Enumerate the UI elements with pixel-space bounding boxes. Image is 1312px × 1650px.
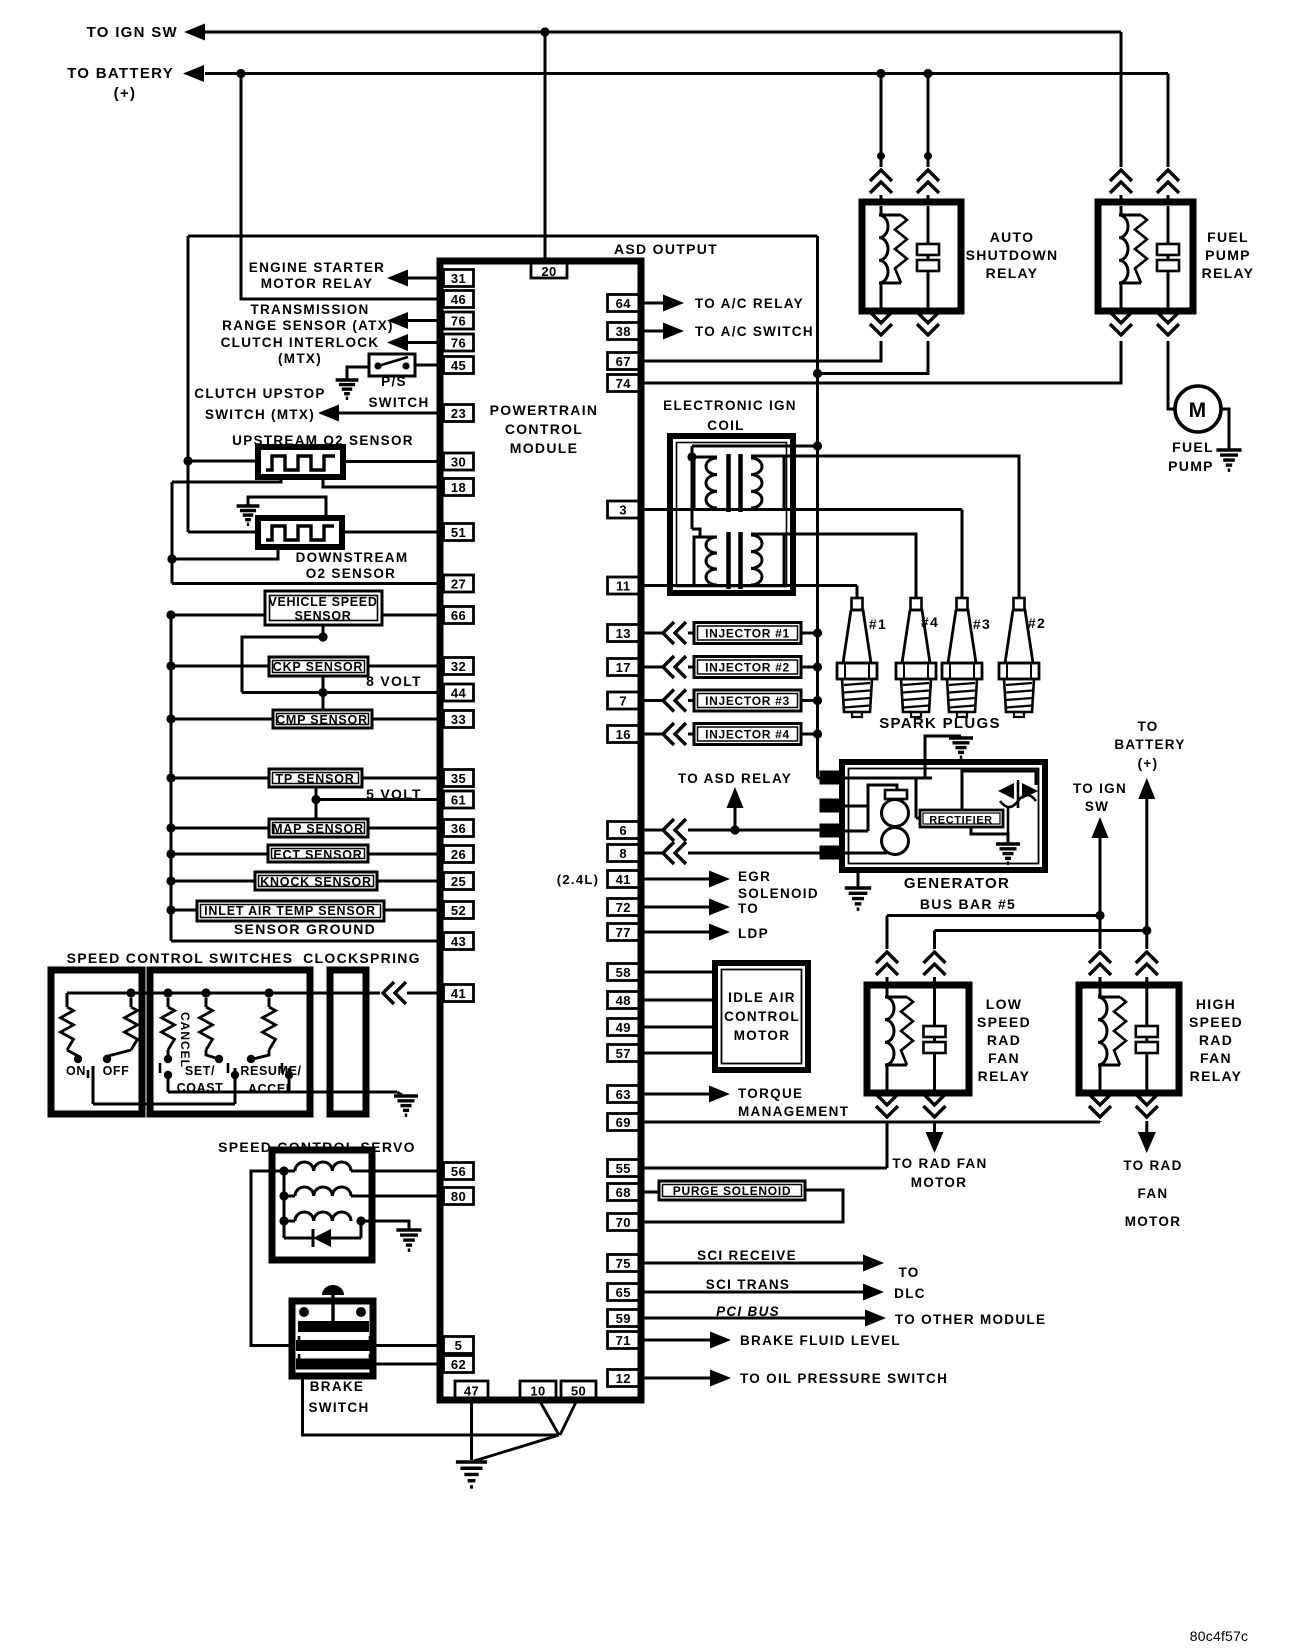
wire: pin 55 line — [644, 1167, 887, 1170]
pin 50 box at PCM bottom — [561, 1381, 596, 1398]
svg-text:13: 13 — [616, 626, 631, 641]
node: junction sensor ground rail / CKP — [166, 661, 175, 670]
wire: upstream O2 sensor to pin 30 — [343, 460, 441, 463]
wire: fuel pump relay coil feed from IGN line — [1120, 32, 1123, 167]
pin 43 (left column, y=941) — [444, 933, 474, 950]
svg-text:(+): (+) — [114, 85, 137, 102]
wire: injector #2 to ASD bus rail — [801, 666, 818, 669]
wire: spark plug 1 drop — [856, 586, 859, 599]
pin 17 (right column, y=667) — [608, 659, 640, 676]
ground: generator case — [845, 886, 871, 889]
svg-text:BUS BAR #5: BUS BAR #5 — [920, 896, 1016, 912]
svg-text:8: 8 — [619, 846, 627, 861]
wire: generator tab4 internal — [842, 852, 887, 855]
pin 65 (right column, y=1292) — [608, 1284, 640, 1301]
svg-text:80: 80 — [451, 1189, 466, 1204]
wire: TP 5-volt drop — [315, 787, 318, 800]
pin 10 box at PCM bottom — [520, 1381, 556, 1398]
svg-text:36: 36 — [451, 821, 466, 836]
svg-text:77: 77 — [616, 925, 631, 940]
svg-text:VEHICLE SPEED: VEHICLE SPEED — [268, 595, 377, 609]
wire: pin 61 5-volt line — [316, 798, 441, 801]
wire: pin 47 to ground — [470, 1398, 473, 1460]
motor M1 fuel pump — [1175, 386, 1221, 432]
wire: brake switch to pin 62 — [373, 1363, 441, 1366]
module U1 POWERTRAIN CONTROL MODULE box — [440, 261, 641, 1400]
wire: injector #4 to ASD bus rail — [801, 733, 818, 736]
svg-text:27: 27 — [451, 577, 466, 592]
svg-text:SPARK PLUGS: SPARK PLUGS — [879, 715, 1001, 732]
connector chevrons below fuel pump relay contact — [1157, 312, 1179, 323]
connector chevrons below fuel pump relay coil — [1110, 312, 1132, 323]
pin 23 (left column, y=413) — [444, 405, 474, 422]
node: junction sensor ground rail / inlet air temp — [166, 905, 175, 914]
wire: servo bottom loop — [284, 1237, 313, 1240]
pin 64 (right column, y=303) — [608, 295, 640, 312]
wire: inlet air temp sensor to pin 52 — [384, 909, 441, 912]
relay K1 coil winding — [879, 215, 888, 283]
pin 62 (left column, y=1364) — [444, 1356, 474, 1373]
svg-text:PUMP: PUMP — [1205, 247, 1251, 263]
svg-text:RAD: RAD — [1199, 1032, 1233, 1048]
wire: injector #3 to ASD bus rail — [801, 699, 818, 702]
wire: pin 49 to IAC — [644, 1026, 715, 1029]
svg-text:41: 41 — [616, 872, 631, 887]
wire: pin 57 to IAC — [644, 1052, 715, 1055]
pin 25 (left column, y=881) — [444, 873, 474, 890]
node: junction feed rail / SET — [201, 988, 210, 997]
svg-text:DLC: DLC — [894, 1286, 926, 1301]
wire: downstream O2 sensor to pin 51 — [342, 531, 441, 534]
spark plug #1 — [852, 598, 863, 610]
pin 68 (right column, y=1192) — [608, 1184, 640, 1201]
node: junction on O2 return rail — [167, 554, 176, 563]
svg-text:POWERTRAIN: POWERTRAIN — [490, 402, 599, 418]
svg-text:HIGH: HIGH — [1196, 996, 1236, 1012]
pin 44 (left column, y=692.5) — [444, 684, 474, 701]
svg-text:MOTOR: MOTOR — [1125, 1214, 1182, 1229]
svg-text:61: 61 — [451, 793, 466, 808]
svg-text:RELAY: RELAY — [978, 1068, 1031, 1084]
switch S1 P/S switch box — [369, 354, 415, 376]
generator brush block — [885, 790, 907, 799]
svg-text:DOWNSTREAM: DOWNSTREAM — [296, 550, 409, 565]
arrowhead EGR solenoid — [709, 871, 730, 888]
relay K1 coil resistor — [895, 215, 907, 283]
connector chevrons pin 8 — [663, 842, 674, 864]
wire: fuel pump motor to ground — [1221, 409, 1229, 449]
pin 71 (right column, y=1340) — [608, 1332, 640, 1349]
svg-text:30: 30 — [451, 455, 466, 470]
coil secondary winding 2 — [751, 534, 784, 586]
relay K3 coil winding — [885, 997, 894, 1065]
ground: speed control switches — [394, 1094, 418, 1097]
svg-text:TRANSMISSION: TRANSMISSION — [250, 302, 369, 317]
wire: pin 77 to LDP — [644, 931, 709, 934]
brake switch upper contacts — [299, 1307, 309, 1317]
pin 26 (left column, y=854) — [444, 846, 474, 863]
pin 31 (left column, y=278) — [444, 270, 474, 287]
connector chevrons below ASD relay contact — [917, 312, 939, 323]
wire: ON/OFF switch arm to common — [93, 1103, 235, 1106]
svg-text:MANAGEMENT: MANAGEMENT — [738, 1104, 849, 1119]
pin 3 (right column, y=509.5) — [608, 501, 640, 518]
pin 47 box at PCM bottom — [455, 1381, 488, 1398]
svg-text:EGR: EGR — [738, 869, 771, 884]
wire: P/S switch to ground — [347, 367, 369, 379]
svg-text:CONTROL: CONTROL — [724, 1009, 800, 1024]
node: dot on ASD contact feed — [924, 152, 932, 160]
wire: fuel pump relay coil to PCM pin 74 — [644, 341, 1121, 383]
pin 75 (right column, y=1263) — [608, 1255, 640, 1272]
wire: HS contact to rad fan motor — [1145, 1121, 1148, 1133]
relay K3 LOW SPEED RAD FAN RELAY box — [867, 985, 969, 1093]
arrowhead clutch upstop switch — [318, 405, 339, 422]
node: junction feed rail / RESUME — [264, 988, 273, 997]
wire: servo left rail — [283, 1171, 286, 1238]
node: junction battery line / ASD relay coil — [876, 69, 885, 78]
wire: pin 16 to injector #4 — [644, 733, 662, 736]
wire: pin 48 to IAC — [644, 999, 715, 1002]
wire: battery feed to HS contact / bus bar — [1145, 798, 1148, 949]
svg-text:FUEL: FUEL — [1172, 439, 1214, 455]
node: junction injector #3 on bus rail — [813, 696, 822, 705]
svg-text:MOTOR RELAY: MOTOR RELAY — [261, 276, 374, 291]
coil core 1 — [726, 454, 731, 512]
wire: ASD relay contact feed from battery — [927, 74, 930, 168]
svg-text:SW: SW — [1085, 799, 1109, 814]
node: junction upstream O2 on bus left edge — [183, 456, 192, 465]
svg-text:CMP SENSOR: CMP SENSOR — [276, 713, 368, 727]
svg-text:76: 76 — [451, 336, 466, 351]
svg-text:SPEED: SPEED — [1189, 1014, 1243, 1030]
svg-text:TORQUE: TORQUE — [738, 1086, 803, 1101]
svg-text:SWITCH (MTX): SWITCH (MTX) — [205, 407, 315, 422]
injector INJ3 box — [694, 690, 801, 711]
svg-text:TP SENSOR: TP SENSOR — [275, 772, 354, 786]
generator slip ring 2 — [882, 828, 909, 855]
wire: generator tab2/tab3 internal — [842, 830, 868, 833]
wire: pin 45 to P/S switch — [415, 364, 441, 367]
generator terminal tab 4 — [820, 846, 842, 859]
pin 76 (left column, y=320.5) — [444, 312, 474, 329]
svg-text:3: 3 — [619, 503, 627, 518]
node: OFF contact — [103, 1055, 111, 1063]
node: junction sensor ground rail / ECT — [166, 849, 175, 858]
resistor: RESUME/ACCEL switch — [268, 998, 271, 1007]
wire: pin 7 to injector #3 — [644, 699, 662, 702]
wire: pin 41 to EGR solenoid — [644, 878, 709, 881]
wire: pin 76 to transmission range sensor — [408, 319, 441, 322]
svg-text:51: 51 — [451, 525, 466, 540]
svg-text:SWITCH: SWITCH — [308, 1400, 369, 1415]
svg-text:17: 17 — [616, 660, 631, 675]
relay K1 AUTO SHUTDOWN RELAY box — [862, 202, 961, 311]
svg-text:57: 57 — [616, 1046, 631, 1061]
wire: VSS to pin 66 — [382, 614, 441, 617]
connector chevrons above ASD relay contact — [917, 170, 939, 181]
wire: coil B+ feed from ASD bus — [692, 445, 818, 448]
svg-text:ENGINE STARTER: ENGINE STARTER — [249, 260, 385, 275]
wire: bus bar #5 line 1 (IGN) — [887, 914, 1100, 917]
svg-text:INJECTOR #3: INJECTOR #3 — [705, 694, 790, 708]
node: junction servo coil3 / diode loop — [356, 1216, 365, 1225]
svg-text:SOLENOID: SOLENOID — [738, 886, 819, 901]
wire: pin 38 to A/C switch — [644, 330, 664, 333]
ground: fuel pump — [1216, 448, 1241, 451]
node: junction servo rail coil1 — [279, 1166, 288, 1175]
svg-text:TO: TO — [738, 901, 759, 916]
svg-text:CLOCKSPRING: CLOCKSPRING — [303, 950, 421, 966]
brake switch bar 2 — [297, 1341, 372, 1350]
wire: 8-volt loop — [242, 637, 323, 693]
wire: pin 71 brake fluid level — [644, 1339, 710, 1342]
svg-text:LOW: LOW — [986, 996, 1023, 1012]
wire: generator tab1 internal — [842, 777, 932, 780]
brake switch plunger — [322, 1285, 344, 1295]
wire: pin 64 to A/C relay — [644, 302, 664, 305]
svg-text:TO RAD FAN: TO RAD FAN — [892, 1156, 987, 1171]
pin 76 (left column, y=342.5) — [444, 334, 474, 351]
spark plug #4 — [911, 598, 922, 610]
svg-text:CLUTCH UPSTOP: CLUTCH UPSTOP — [194, 386, 325, 401]
svg-text:OFF: OFF — [103, 1064, 130, 1078]
svg-text:11: 11 — [616, 579, 631, 594]
svg-text:BATTERY: BATTERY — [1114, 737, 1185, 752]
generator terminal tab 2 — [820, 799, 842, 812]
sensor B5 CMP SENSOR box — [273, 710, 372, 728]
relay K2 contact — [1167, 206, 1170, 308]
connector chevrons injector #3 — [663, 690, 674, 712]
wire: generator case to ground — [857, 870, 860, 887]
switch arm SET/COAST — [231, 1071, 239, 1079]
node: junction bus bar line2 / HS contact — [1142, 926, 1151, 935]
wire: TO IGN SW feed line — [205, 31, 1121, 34]
sensor B1 upstream O2 sensor box — [258, 447, 343, 477]
wire: coil secondary 2 to spark plug 4 — [784, 534, 916, 598]
arrowhead transmission range sensor — [387, 312, 408, 329]
svg-text:INJECTOR #2: INJECTOR #2 — [705, 661, 790, 675]
svg-text:16: 16 — [616, 727, 631, 742]
svg-text:TO: TO — [1137, 719, 1158, 734]
svg-text:80c4f57c: 80c4f57c — [1190, 1628, 1248, 1644]
wire: spark plug 3 drop — [961, 510, 964, 599]
connector chevrons injector #1 — [663, 622, 674, 644]
svg-text:PURGE SOLENOID: PURGE SOLENOID — [673, 1184, 791, 1198]
relay K4 coil resistor — [1114, 997, 1126, 1065]
svg-text:5 VOLT: 5 VOLT — [366, 786, 422, 802]
wire: fuel pump relay contact feed from battery line — [1167, 74, 1170, 168]
connector chevrons below LS relay contact — [924, 1094, 946, 1105]
wire: rail to TP — [171, 777, 269, 780]
svg-text:8 VOLT: 8 VOLT — [366, 673, 422, 689]
wire: upstream O2 bottom pin to O2 return rail — [172, 477, 281, 482]
pin 49 (right column, y=1027) — [608, 1019, 640, 1036]
svg-text:46: 46 — [451, 292, 466, 307]
sensor B10 INLET AIR TEMP SENSOR box — [197, 901, 384, 921]
brake switch bar 1 — [299, 1322, 368, 1331]
arrowhead oil pressure switch — [710, 1370, 731, 1387]
node: junction ASD contact wire on bus rail — [813, 369, 822, 378]
arrowhead pin 72 — [709, 899, 730, 916]
pin 48 (right column, y=1000) — [608, 992, 640, 1009]
sensor B8 ECT SENSOR box — [268, 845, 368, 862]
wire: HS coil feed lower — [1099, 977, 1102, 985]
node: junction injector #1 on bus rail — [813, 628, 822, 637]
wire: downstream O2 top pin to ground — [248, 497, 326, 518]
sensor B1 heater element — [266, 456, 335, 470]
arrowhead brake fluid level — [710, 1332, 731, 1349]
node: junction bus bar line1 / HS coil — [1095, 911, 1104, 920]
svg-text:INLET AIR TEMP SENSOR: INLET AIR TEMP SENSOR — [204, 904, 376, 918]
svg-text:67: 67 — [616, 354, 631, 369]
svg-text:IDLE AIR: IDLE AIR — [728, 990, 796, 1005]
wire: IGN feed to HS coil / bus bar — [1099, 837, 1102, 949]
svg-text:49: 49 — [616, 1020, 631, 1035]
wire: generator rectifier top loop — [962, 771, 1036, 810]
relay K1 contact — [927, 206, 930, 308]
node: junction bus rail / coil feed — [813, 441, 822, 450]
connector chevrons pin 6 — [663, 819, 674, 841]
wire: rail to CMP — [171, 718, 273, 721]
wire: LS coil feed — [886, 916, 889, 950]
wire: pin 3 to coil primary 1 / spark plug 3 lead — [644, 508, 962, 511]
svg-text:TO OTHER MODULE: TO OTHER MODULE — [895, 1312, 1046, 1327]
pin 13 (right column, y=633) — [608, 625, 640, 642]
svg-text:ASD OUTPUT: ASD OUTPUT — [614, 241, 718, 257]
svg-text:M: M — [1189, 399, 1208, 422]
svg-text:(+): (+) — [1138, 756, 1159, 771]
wire: ASD relay coil feed from battery — [880, 74, 883, 168]
wire: ASD bus rail into generator tab 1 — [818, 777, 821, 780]
wire: pin 10 diagonal to ground node — [538, 1398, 559, 1435]
wire: ASD output bus right rail — [816, 236, 819, 778]
switch arm RESUME/ACCEL — [285, 1071, 293, 1079]
connector chevrons injector #2 — [663, 656, 674, 678]
wire: TO BATTERY feed line — [205, 72, 1168, 75]
spark plug #2 — [1014, 598, 1025, 610]
diode pack in generator — [998, 783, 1014, 799]
arrowhead SCI receive — [863, 1255, 884, 1272]
svg-text:ELECTRONIC IGN: ELECTRONIC IGN — [663, 398, 797, 413]
svg-text:47: 47 — [464, 1384, 479, 1399]
wire: bus bar #5 line 2 (battery) — [935, 929, 1147, 932]
svg-text:RESUME/: RESUME/ — [240, 1064, 301, 1078]
svg-text:64: 64 — [616, 296, 632, 311]
svg-text:43: 43 — [451, 934, 466, 949]
pin 61 (left column, y=799.5) — [444, 791, 474, 808]
svg-text:20: 20 — [541, 264, 556, 279]
pin 74 (right column, y=383) — [608, 375, 640, 392]
node: junction VSS 8-volt — [318, 632, 327, 641]
wire: pin 13 to injector #1 — [644, 632, 662, 635]
svg-text:CKP SENSOR: CKP SENSOR — [273, 660, 363, 674]
wire: pin 23 to clutch upstop switch — [339, 412, 441, 415]
brake switch bar 3 — [297, 1360, 372, 1369]
pin 80 (left column, y=1196) — [444, 1188, 474, 1205]
wire: injector #1 to ASD bus rail — [801, 632, 818, 635]
wire: rail to VSS — [171, 614, 265, 617]
relay K2 coil resistor — [1135, 215, 1147, 283]
clockspring box — [330, 970, 366, 1114]
node: junction battery line / ASD relay contact — [923, 69, 932, 78]
relay K4 HIGH SPEED RAD FAN RELAY box — [1079, 985, 1179, 1093]
svg-text:TO ASD RELAY: TO ASD RELAY — [678, 771, 792, 786]
svg-text:P/S: P/S — [381, 374, 407, 389]
resistor: OFF switch — [130, 998, 133, 1007]
connector chevrons above HS relay coil — [1089, 952, 1111, 963]
node: SET contact — [215, 1055, 223, 1063]
node: junction feed rail / OFF resistor — [126, 988, 135, 997]
svg-text:RELAY: RELAY — [986, 265, 1039, 281]
diode D1 servo clamp diode — [313, 1229, 331, 1247]
arrowhead TO BATTERY (up) — [1138, 778, 1155, 799]
pin 52 (left column, y=910) — [444, 902, 474, 919]
connector chevrons above fuel pump relay coil — [1110, 170, 1132, 181]
relay K4 contact — [1145, 988, 1148, 1090]
svg-text:25: 25 — [451, 874, 466, 889]
coil primary winding 2 — [694, 537, 717, 586]
svg-text:72: 72 — [616, 900, 631, 915]
svg-text:71: 71 — [616, 1333, 631, 1348]
wire: pin 44 8-volt line — [242, 691, 441, 694]
relay K2 coil winding — [1119, 215, 1128, 283]
svg-text:52: 52 — [451, 903, 466, 918]
connector chevrons clockspring to pin 41 — [383, 982, 394, 1004]
pin 41 (left column, y=993) — [444, 985, 474, 1002]
relay K2 FUEL PUMP RELAY box — [1098, 202, 1193, 311]
svg-text:#3: #3 — [973, 616, 991, 632]
wire: 5-volt to MAP top — [315, 800, 318, 820]
svg-text:69: 69 — [616, 1115, 631, 1130]
svg-text:#2: #2 — [1028, 615, 1046, 631]
wire: rail to inlet air temp sensor — [171, 909, 197, 912]
svg-text:SWITCH: SWITCH — [368, 395, 429, 410]
wire: servo coil3 to ground — [361, 1221, 409, 1229]
pin 67 (right column, y=361) — [608, 353, 640, 370]
svg-text:44: 44 — [451, 686, 467, 701]
resistor: ON switch — [66, 993, 69, 1007]
svg-text:TO RAD: TO RAD — [1123, 1158, 1182, 1173]
pin 27 (left column, y=583.5) — [444, 575, 474, 592]
node: junction 5-volt — [311, 795, 320, 804]
node: junction TO ASD RELAY branch — [730, 825, 739, 834]
svg-text:74: 74 — [616, 376, 632, 391]
svg-text:CONTROL: CONTROL — [505, 421, 583, 437]
wire: VSS 8-volt feed drop — [322, 625, 325, 637]
wire: brake switch to pin 5 — [373, 1344, 441, 1347]
svg-text:6: 6 — [619, 823, 627, 838]
svg-text:5: 5 — [455, 1338, 463, 1353]
svg-text:55: 55 — [616, 1161, 631, 1176]
wire: pin 69 line to HS coil — [644, 1121, 1100, 1124]
arrowhead to A/C relay — [663, 295, 684, 312]
node: junction servo rail coil2 — [279, 1191, 288, 1200]
wire: generator stator ground stem — [925, 736, 961, 778]
svg-text:ON: ON — [66, 1064, 86, 1078]
svg-text:TO: TO — [898, 1265, 919, 1280]
svg-text:65: 65 — [616, 1285, 631, 1300]
svg-text:CLUTCH INTERLOCK: CLUTCH INTERLOCK — [221, 335, 380, 350]
wire: pin 8 to generator — [644, 852, 662, 855]
switch box S3 CANCEL/SET/RESUME — [150, 970, 310, 1114]
connector chevrons above fuel pump relay contact — [1157, 170, 1179, 181]
switch arm ON/OFF — [92, 1066, 95, 1104]
node: junction sensor ground rail / VSS — [166, 610, 175, 619]
svg-text:FAN: FAN — [988, 1050, 1020, 1066]
node: junction sensor ground rail / TP — [166, 773, 175, 782]
injector INJ1 box — [694, 623, 801, 644]
